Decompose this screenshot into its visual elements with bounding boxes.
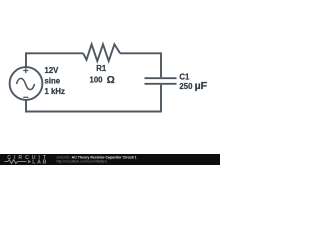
svg-text:R1: R1 [96, 64, 107, 73]
svg-text:LAB: LAB [32, 160, 48, 165]
svg-text:12V: 12V [45, 66, 60, 75]
svg-text:C1: C1 [179, 73, 190, 82]
svg-text:1 kHz: 1 kHz [45, 87, 65, 96]
svg-text:http://circuitlab.com/cwm4tk68: http://circuitlab.com/cwm4tk68pv [57, 159, 108, 163]
svg-text:sine: sine [45, 76, 61, 85]
svg-text:250 µF: 250 µF [179, 80, 207, 92]
svg-text:100 Ω: 100 Ω [90, 75, 115, 86]
